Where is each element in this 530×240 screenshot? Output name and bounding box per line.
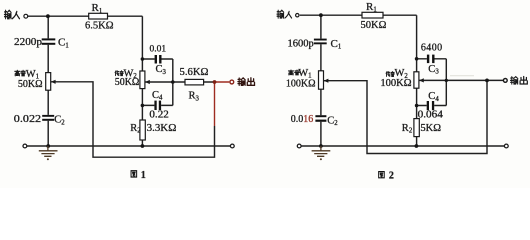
- svg-text:50KΩ: 50KΩ: [115, 77, 140, 88]
- svg-text:6400: 6400: [421, 42, 442, 53]
- svg-text:6.5KΩ: 6.5KΩ: [85, 20, 114, 31]
- svg-text:100KΩ: 100KΩ: [286, 79, 316, 90]
- svg-text:2: 2: [389, 170, 394, 181]
- svg-text:3.3KΩ: 3.3KΩ: [147, 123, 177, 134]
- svg-text:2200p: 2200p: [14, 37, 42, 48]
- svg-text:5KΩ: 5KΩ: [420, 123, 441, 134]
- svg-text:0.22: 0.22: [149, 109, 168, 120]
- svg-text:0.064: 0.064: [418, 110, 443, 121]
- svg-text:50KΩ: 50KΩ: [18, 79, 43, 90]
- svg-text:0.01: 0.01: [150, 45, 167, 55]
- svg-text:0.016: 0.016: [291, 114, 314, 125]
- svg-text:0.022: 0.022: [14, 114, 41, 125]
- svg-text:50KΩ: 50KΩ: [361, 20, 387, 31]
- svg-text:100KΩ: 100KΩ: [380, 78, 411, 89]
- svg-text:1: 1: [141, 170, 146, 181]
- svg-text:5.6KΩ: 5.6KΩ: [180, 67, 209, 78]
- svg-text:1600p: 1600p: [288, 38, 314, 49]
